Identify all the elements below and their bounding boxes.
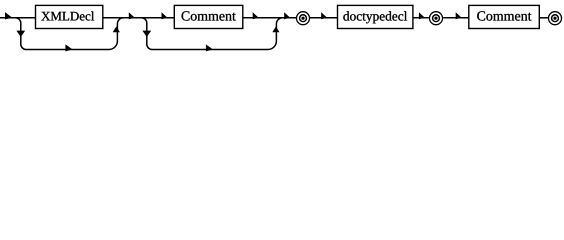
label Comment 1 bbox=[182, 11, 236, 20]
bullseye connector 3 outer ring bbox=[549, 12, 562, 25]
arrowhead down on bypass 2 left vertical bbox=[142, 31, 151, 37]
arrowhead after doctypedecl box bbox=[419, 12, 425, 19]
bullseye connector 3 center dot bbox=[553, 17, 556, 20]
label doctypedecl bbox=[343, 11, 407, 23]
wire main line segment 3 bbox=[243, 17, 296, 19]
arrowhead up on bypass 2 right vertical bbox=[272, 27, 279, 33]
box doctypedecl bbox=[338, 5, 413, 28]
bullseye connector 2 outer ring bbox=[430, 12, 443, 25]
wire main line segment 5 bbox=[413, 17, 429, 19]
arrowhead up on bypass 1 right vertical bbox=[113, 27, 120, 33]
arrowhead before Comment box 2 bbox=[456, 12, 462, 19]
wire bypass loop 2 (skip Comment) bbox=[142, 18, 283, 50]
arrowhead before doctypedecl box bbox=[321, 12, 327, 19]
arrowhead on bypass 1 bottom line bbox=[65, 44, 72, 51]
arrowhead start bbox=[5, 12, 12, 19]
bullseye connector 2 inner ring bbox=[433, 15, 440, 22]
bullseye connector 1 outer ring bbox=[297, 12, 310, 25]
arrowhead before bullseye 1 bbox=[284, 12, 290, 19]
box Comment 1 bbox=[174, 5, 243, 28]
label Comment 2 bbox=[477, 11, 531, 20]
box Comment 2 bbox=[469, 5, 540, 28]
arrowhead on bypass 2 bottom line bbox=[206, 44, 213, 51]
wire main line segment 2 bbox=[103, 17, 175, 19]
wire main line segment 1 bbox=[0, 17, 36, 19]
label XMLDecl bbox=[41, 11, 94, 20]
box XMLDecl bbox=[36, 5, 103, 28]
bullseye connector 2 center dot bbox=[434, 17, 437, 20]
bullseye connector 3 inner ring bbox=[552, 15, 559, 22]
wire bypass loop 1 (skip XMLDecl) bbox=[16, 18, 124, 50]
arrowhead after merge 1 bbox=[129, 12, 135, 19]
wire main line segment 7 bbox=[539, 17, 548, 19]
arrowhead before Comment box 1 bbox=[162, 12, 168, 19]
wire main line segment 4 bbox=[310, 17, 338, 19]
wire main line segment 6 bbox=[443, 17, 469, 19]
bullseye connector 1 inner ring bbox=[300, 15, 307, 22]
arrowhead down on bypass 1 left vertical bbox=[16, 31, 25, 37]
bullseye connector 1 center dot bbox=[301, 17, 304, 20]
arrowhead after Comment box 1 bbox=[253, 12, 259, 19]
